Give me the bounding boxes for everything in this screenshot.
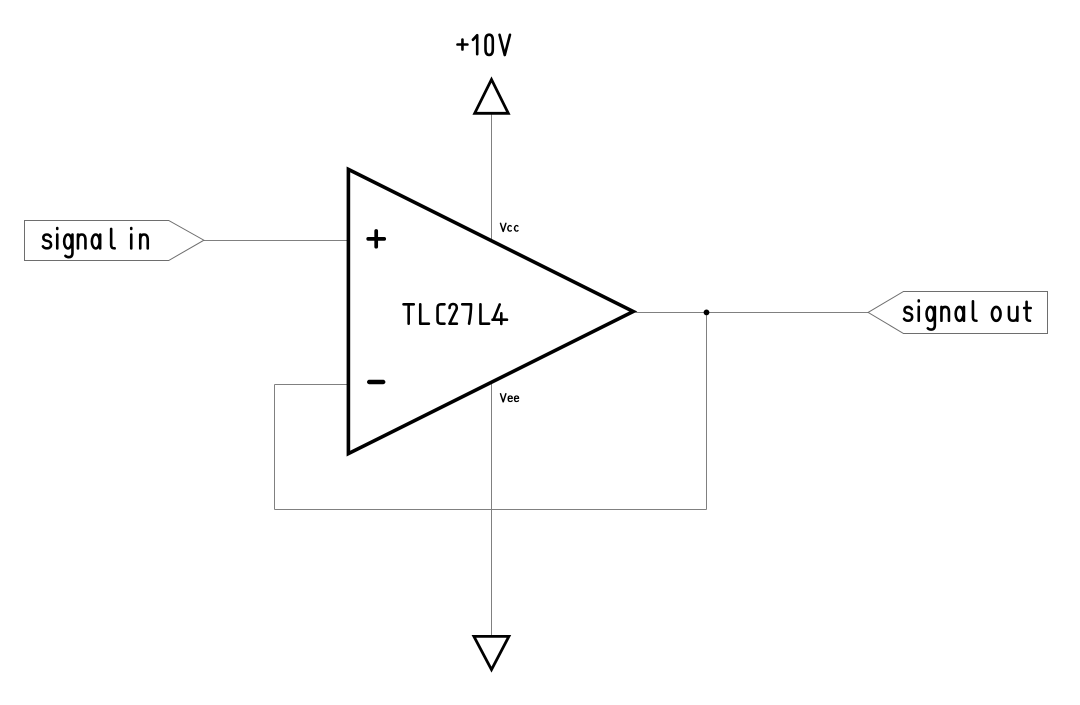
net label: signal in text: [43, 228, 148, 257]
junction: output node dot: [704, 310, 710, 316]
wire: feedback bottom horizontal segment: [275, 509, 707, 511]
op-amp non-inverting input plus sign: [368, 231, 384, 247]
wire: feedback to inverting input: [275, 384, 349, 386]
wire: VEE vertical wire from op-amp Vee pin to negative supply: [491, 382, 493, 635]
pin label: Vee: [500, 394, 518, 402]
op-amp U1 TLC27L4 triangle body: [348, 169, 633, 453]
power symbol: negative supply triangle: [474, 636, 509, 669]
net label: signal out text: [904, 300, 1031, 329]
wire: VCC supply vertical wire to op-amp Vcc pin: [491, 115, 493, 241]
net flag: signal in: [25, 221, 204, 261]
op-amp inverting input minus sign: [369, 380, 383, 384]
net flag: signal out: [868, 292, 1047, 334]
label: +10V supply net name: [458, 35, 510, 55]
wire: feedback right vertical segment: [706, 313, 708, 510]
power symbol: +10V supply triangle: [475, 80, 509, 114]
wire: signal in to non-inverting input: [204, 240, 348, 242]
wire: feedback left vertical segment: [274, 385, 276, 510]
wire: output from op-amp to signal out flag: [636, 312, 869, 314]
label: op-amp part value TLC27L4: [404, 304, 507, 324]
pin label: Vcc: [500, 223, 517, 231]
